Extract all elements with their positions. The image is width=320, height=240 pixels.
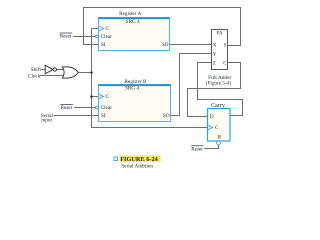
pin label D bbox=[210, 114, 214, 120]
svg-text:D: D bbox=[210, 114, 214, 120]
svg-text:Carry: Carry bbox=[211, 103, 225, 109]
label Register A bbox=[119, 11, 141, 17]
caption FIGURE 6-24 highlighted bbox=[120, 155, 161, 163]
inverter NOT gate bbox=[45, 65, 56, 74]
pin label FA bbox=[216, 30, 222, 36]
svg-text:Shift: Shift bbox=[31, 66, 42, 73]
label Reset (register B) with overline bbox=[61, 104, 73, 110]
register B clock dynamic triangle bbox=[99, 94, 104, 98]
register A Clear bubble bbox=[96, 35, 99, 38]
svg-text:C: C bbox=[106, 94, 110, 100]
pin label S bbox=[224, 42, 227, 48]
pin label C register A bbox=[106, 26, 110, 32]
svg-text:SI: SI bbox=[101, 113, 106, 119]
pin label SO register B bbox=[163, 113, 170, 119]
svg-text:Reset: Reset bbox=[61, 105, 73, 111]
svg-text:SRG 4: SRG 4 bbox=[125, 86, 139, 92]
wire Serial input to register B SI bbox=[54, 115, 99, 117]
svg-text:SO: SO bbox=[163, 113, 170, 119]
svg-text:Z: Z bbox=[213, 60, 216, 66]
svg-text:input: input bbox=[41, 118, 52, 124]
svg-text:Y: Y bbox=[213, 51, 217, 57]
register B box SRG 4 bbox=[98, 85, 171, 122]
svg-text:S: S bbox=[224, 42, 227, 48]
pin label C full adder bbox=[223, 60, 227, 66]
svg-text:Clear: Clear bbox=[101, 105, 113, 111]
label Register B bbox=[124, 79, 147, 85]
register A box SRG 4 bbox=[98, 18, 170, 51]
svg-text:Clear: Clear bbox=[101, 34, 113, 40]
svg-text:Serial Addition: Serial Addition bbox=[121, 164, 153, 170]
pin label Clear register B bbox=[101, 105, 113, 111]
svg-text:Reset: Reset bbox=[60, 34, 72, 40]
wire Reset to register A Clear bbox=[73, 36, 96, 38]
svg-text:C: C bbox=[223, 60, 227, 66]
pin label X bbox=[213, 42, 217, 48]
FF clock dynamic triangle bbox=[208, 125, 213, 129]
pin label Y bbox=[213, 51, 217, 57]
wire inverter bubble to OR gate bbox=[57, 69, 65, 71]
caption Serial Addition bbox=[121, 164, 153, 170]
node junction dot register B clock branch bbox=[90, 95, 93, 98]
wire Reset to register B Clear bbox=[74, 107, 96, 109]
svg-text:R: R bbox=[218, 135, 222, 141]
full adder FA box bbox=[212, 30, 228, 70]
svg-text:FIGURE 6-24: FIGURE 6-24 bbox=[120, 156, 158, 163]
OR gate bbox=[62, 67, 78, 78]
svg-text:(Figure 5-4): (Figure 5-4) bbox=[206, 80, 231, 87]
pin label Z bbox=[213, 60, 216, 66]
svg-text:SO: SO bbox=[162, 42, 169, 48]
svg-text:Register B: Register B bbox=[124, 79, 147, 85]
svg-text:Clock: Clock bbox=[28, 74, 41, 80]
label Reset (flip-flop) with overline bbox=[191, 146, 203, 153]
label (Figure 5-4) bbox=[206, 80, 231, 87]
wire Clock to OR gate bbox=[40, 75, 65, 77]
svg-text:SRG 4: SRG 4 bbox=[126, 19, 140, 25]
pin label Clear register A bbox=[101, 34, 113, 40]
caption figure marker square bbox=[114, 157, 118, 161]
pin label SI register A bbox=[101, 42, 106, 48]
wire B.SO to FA Y input bbox=[171, 54, 212, 116]
pin label SO register A bbox=[162, 42, 169, 48]
svg-text:C: C bbox=[106, 26, 110, 32]
pin label C register B bbox=[106, 94, 110, 100]
wire FA C output to FF D input bbox=[188, 63, 241, 117]
label Shift bbox=[31, 66, 42, 73]
label Serial input bbox=[41, 113, 54, 124]
pin label C flip-flop bbox=[215, 125, 219, 131]
register A clock dynamic triangle bbox=[99, 26, 104, 30]
label Full Adder bbox=[208, 75, 231, 81]
svg-text:FA: FA bbox=[216, 30, 222, 36]
label Clock bbox=[28, 74, 41, 80]
wire sum S output to SI of register A (top return path) bbox=[84, 8, 241, 46]
pin label SI register B bbox=[101, 113, 106, 119]
label SRG 4 register B bbox=[125, 86, 139, 92]
pin label R bbox=[218, 135, 222, 141]
svg-text:X: X bbox=[213, 42, 217, 48]
label SRG 4 bbox=[126, 19, 140, 25]
svg-text:Register A: Register A bbox=[119, 11, 141, 17]
wire Reset to FF R bubble bbox=[204, 145, 219, 149]
wire clock bus vertical with branches bbox=[78, 29, 208, 128]
FF reset bubble bbox=[217, 141, 221, 145]
carry D flip-flop box bbox=[208, 109, 231, 142]
register B Clear bubble bbox=[96, 106, 99, 109]
svg-text:C: C bbox=[215, 125, 219, 131]
wire carry FF Q output to FA Z input bbox=[198, 63, 243, 116]
node junction dot OR output on bus bbox=[90, 71, 93, 74]
wire Shift to inverter bbox=[41, 69, 45, 71]
label Carry bbox=[211, 103, 225, 109]
svg-text:Reset: Reset bbox=[191, 146, 203, 152]
label Reset (register A) with overline bbox=[60, 33, 72, 40]
svg-text:SI: SI bbox=[101, 42, 106, 48]
wire A.SO to FA X input bbox=[170, 44, 212, 46]
